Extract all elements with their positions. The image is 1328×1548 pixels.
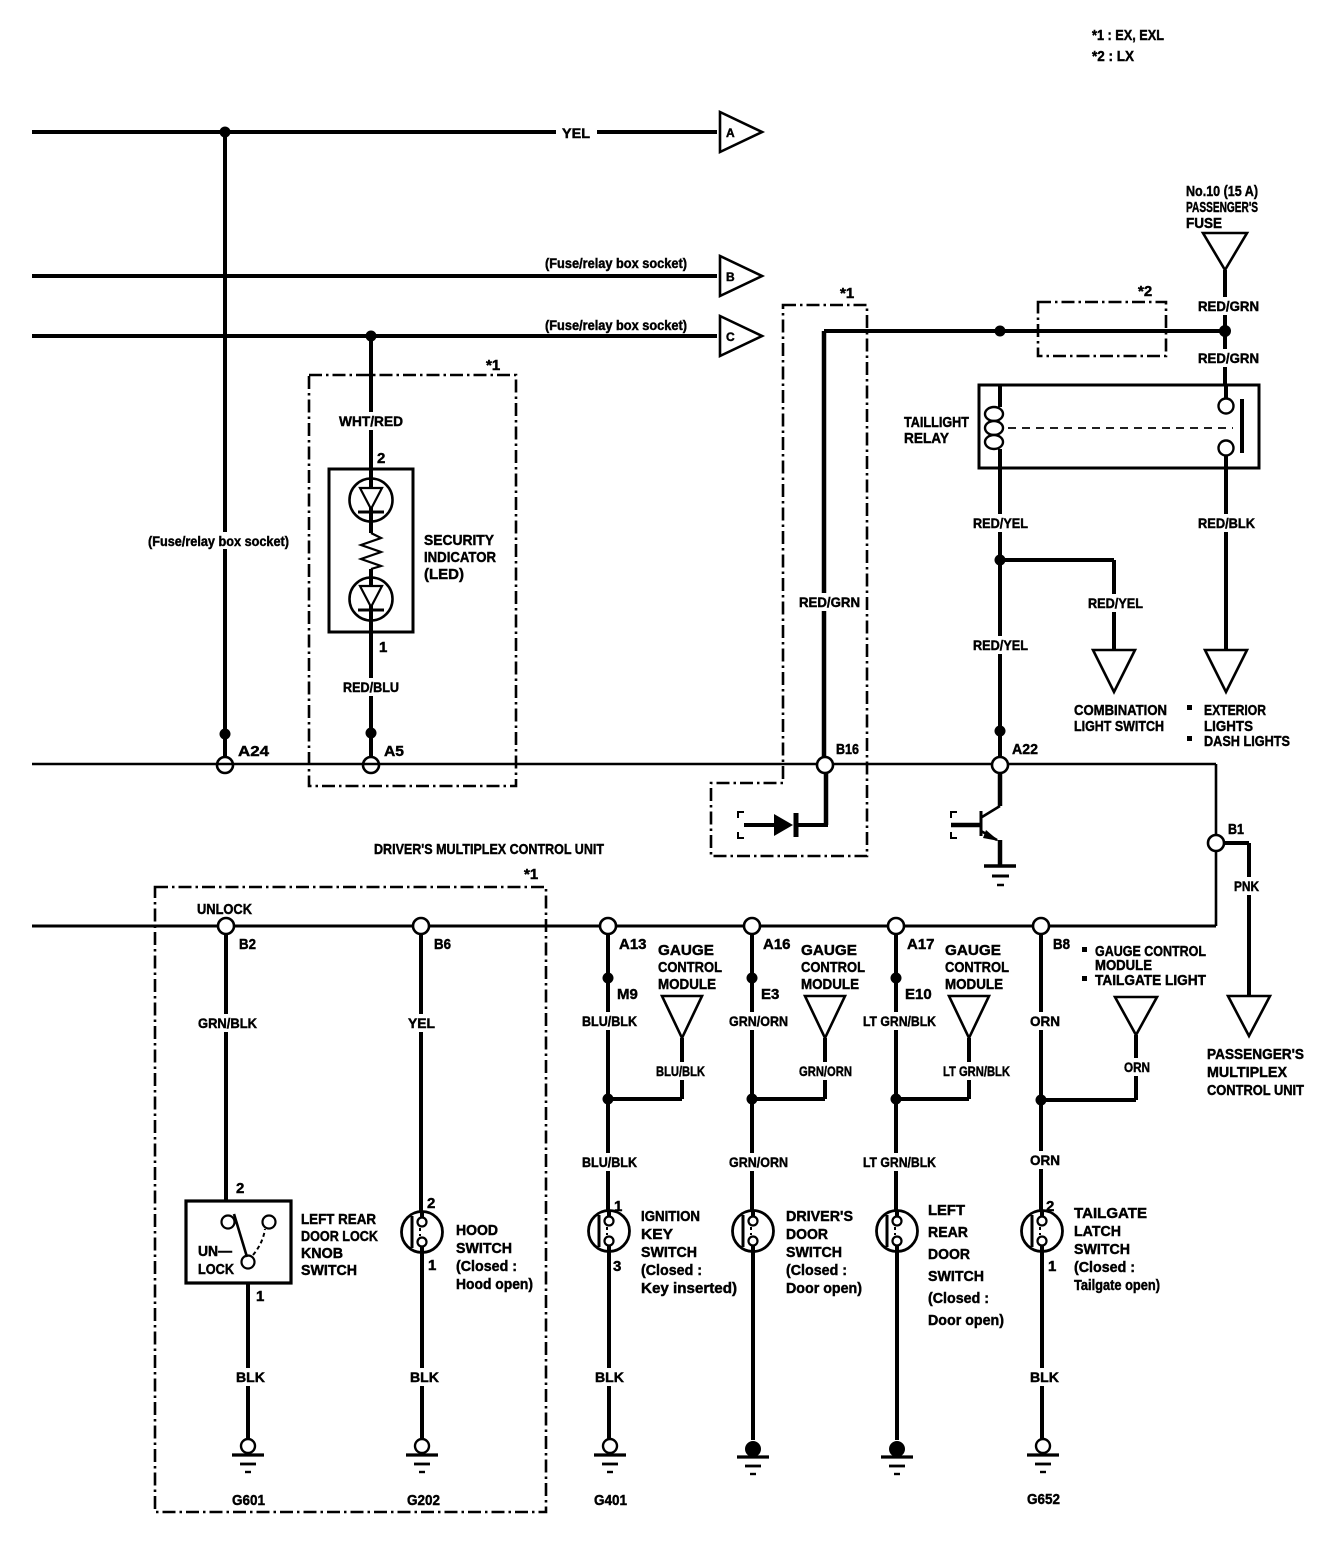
svg-text:(Fuse/relay box socket): (Fuse/relay box socket) <box>545 318 687 333</box>
svg-text:ORN: ORN <box>1030 1152 1060 1168</box>
svg-text:1: 1 <box>379 639 387 656</box>
svg-text:A5: A5 <box>384 743 404 760</box>
connector B1 <box>1208 835 1224 851</box>
switch SW tailgate latch <box>1022 1211 1063 1252</box>
wire WHT/RED <box>369 336 373 470</box>
svg-text:RED/GRN: RED/GRN <box>1198 350 1259 366</box>
svg-text:TAILGATE: TAILGATE <box>1074 1206 1147 1222</box>
svg-text:MODULE: MODULE <box>658 976 716 993</box>
wire YEL feed bus <box>32 130 717 134</box>
label GAUGE CONTROL MODULE A13 <box>658 942 722 993</box>
splice connector E10 <box>891 973 902 984</box>
svg-text:B: B <box>726 270 735 284</box>
svg-text:BLK: BLK <box>595 1369 624 1385</box>
svg-text:DRIVER'S MULTIPLEX CONTROL UNI: DRIVER'S MULTIPLEX CONTROL UNIT <box>374 841 604 858</box>
svg-text:REAR: REAR <box>928 1225 969 1241</box>
label switch text A17 <box>928 1203 1004 1329</box>
label RED/YEL lower <box>970 636 1031 654</box>
label LT GRN/BLK lower A17 <box>860 1153 939 1171</box>
svg-text:G652: G652 <box>1027 1492 1060 1508</box>
terminal bracket diode anode <box>738 812 744 838</box>
label LEFT REAR DOOR LOCK KNOB SWITCH <box>301 1212 378 1279</box>
svg-text:A17: A17 <box>907 936 935 953</box>
label WHT/RED <box>336 412 406 430</box>
connector A22 <box>992 757 1008 773</box>
LED D2 <box>350 578 393 621</box>
svg-text:B6: B6 <box>434 936 451 953</box>
LED D1 <box>350 479 393 522</box>
label RED/GRN vertical <box>796 593 863 611</box>
svg-text:DASH LIGHTS: DASH LIGHTS <box>1204 734 1290 750</box>
wire LT GRN/BLK column A17 <box>894 934 898 1212</box>
label GRN/ORN module drop A16 <box>796 1062 855 1080</box>
transistor Q1 <box>951 773 1000 866</box>
svg-text:1: 1 <box>256 1288 264 1305</box>
svg-text:(Fuse/relay box socket): (Fuse/relay box socket) <box>148 534 289 549</box>
wire PNK to passenger multiplex <box>1224 843 1249 996</box>
svg-text:LIGHTS: LIGHTS <box>1204 719 1253 735</box>
label GAUGE CONTROL MODULE A17 <box>945 942 1009 993</box>
svg-text:LT GRN/BLK: LT GRN/BLK <box>863 1154 936 1170</box>
svg-text:INDICATOR: INDICATOR <box>424 550 496 566</box>
resistor R security indicator <box>361 533 381 569</box>
wire fuse/relay bus B <box>32 274 717 278</box>
label BLK B8 column <box>1027 1368 1062 1386</box>
wire BLK hood switch to ground <box>420 1253 424 1440</box>
wire RED/YEL branch to combination switch <box>1000 560 1114 650</box>
wire B16 to diode <box>798 773 828 825</box>
junction YEL/A24 wire <box>220 127 231 138</box>
wire BLK door lock to ground <box>246 1283 250 1440</box>
svg-text:MODULE: MODULE <box>945 976 1003 993</box>
label TAILLIGHT RELAY <box>904 415 969 447</box>
svg-text:G601: G601 <box>232 1493 265 1509</box>
svg-text:RED/YEL: RED/YEL <box>1088 595 1143 611</box>
svg-text:E3: E3 <box>761 986 779 1003</box>
svg-text:RELAY: RELAY <box>904 431 949 447</box>
svg-text:RED/BLU: RED/BLU <box>343 679 399 695</box>
svg-text:LEFT REAR: LEFT REAR <box>301 1212 376 1228</box>
label BLK B2 column <box>233 1368 268 1386</box>
svg-text:B2: B2 <box>239 936 256 953</box>
label ORN lower <box>1027 1151 1063 1169</box>
junction RED/YEL branch <box>995 555 1006 566</box>
relay K1 taillight relay box <box>979 385 1259 468</box>
svg-text:2: 2 <box>377 450 385 467</box>
svg-text:ORN: ORN <box>1030 1013 1060 1029</box>
svg-text:ORN: ORN <box>1124 1059 1150 1075</box>
label RED/YEL upper <box>970 514 1031 532</box>
svg-text:Tailgate open): Tailgate open) <box>1074 1278 1160 1294</box>
label COMBINATION LIGHT SWITCH <box>1074 703 1167 735</box>
svg-text:UNLOCK: UNLOCK <box>197 902 252 918</box>
junction node security indicator tap <box>366 331 377 342</box>
arrow gauge control module A13 <box>662 996 702 1038</box>
svg-text:RED/GRN: RED/GRN <box>799 594 860 610</box>
svg-text:YEL: YEL <box>408 1015 435 1031</box>
wire to ground A16 <box>751 1252 755 1440</box>
arrow gauge control module A16 <box>805 996 845 1038</box>
label YEL B6 column <box>405 1014 438 1032</box>
splice dot above A22 <box>995 726 1006 737</box>
label RED/YEL branch <box>1085 594 1146 612</box>
label SECURITY INDICATOR (LED) <box>424 533 496 583</box>
wire RED/BLU <box>369 632 373 757</box>
svg-text:No.10 (15 A): No.10 (15 A) <box>1186 184 1258 200</box>
splice dot above A5 <box>366 728 377 739</box>
svg-text:SWITCH: SWITCH <box>301 1263 357 1279</box>
svg-text:LEFT: LEFT <box>928 1203 965 1219</box>
wire to ground A17 <box>895 1252 899 1440</box>
connector A16 <box>744 918 760 934</box>
svg-text:Key inserted): Key inserted) <box>641 1281 737 1297</box>
label BLU/BLK lower A13 <box>579 1153 640 1171</box>
svg-text:TAILLIGHT: TAILLIGHT <box>904 415 969 431</box>
label RED/GRN below junction <box>1195 349 1262 367</box>
svg-text:RED/GRN: RED/GRN <box>1198 298 1259 314</box>
svg-text:BLK: BLK <box>410 1369 439 1385</box>
svg-text:MODULE: MODULE <box>1095 958 1152 974</box>
svg-text:GRN/ORN: GRN/ORN <box>729 1013 788 1029</box>
svg-text:YEL: YEL <box>562 125 590 141</box>
box driver's multiplex control unit dash-dot <box>155 887 546 1512</box>
label No.10 (15 A) PASSENGER'S FUSE <box>1186 184 1258 232</box>
svg-text:PASSENGER'S: PASSENGER'S <box>1207 1047 1304 1063</box>
fuse arrow from passenger fuse <box>1203 233 1247 270</box>
connector B16 <box>817 757 833 773</box>
ground G401 <box>603 1439 617 1453</box>
svg-text:EXTERIOR: EXTERIOR <box>1204 703 1266 719</box>
label TAILGATE LATCH SWITCH (Closed : Tailgate open) <box>1074 1206 1160 1294</box>
label BLK B6 column <box>407 1368 442 1386</box>
label UN-LOCK <box>198 1244 234 1278</box>
svg-text:FUSE: FUSE <box>1186 216 1222 232</box>
svg-text:CONTROL: CONTROL <box>801 959 865 976</box>
connector B8 <box>1033 918 1049 934</box>
label GAUGE CONTROL MODULE A16 <box>801 942 865 993</box>
junction fuse/RED-GRN bus <box>1219 325 1231 337</box>
svg-text:2: 2 <box>427 1195 435 1212</box>
label (Fuse/relay box socket) left <box>145 532 292 549</box>
diode D1 (in *1 box) <box>744 813 796 837</box>
svg-text:(LED): (LED) <box>424 567 464 583</box>
svg-text:SWITCH: SWITCH <box>641 1245 697 1261</box>
label RED/BLK <box>1195 514 1258 532</box>
relay contacts <box>1219 385 1243 468</box>
svg-text:SWITCH: SWITCH <box>456 1241 512 1257</box>
switch left rear door switch symbol A17 <box>877 1211 918 1252</box>
wire BLU/BLK column A13 <box>606 934 610 1212</box>
svg-text:Hood open): Hood open) <box>456 1277 533 1293</box>
svg-text:SECURITY: SECURITY <box>424 533 494 549</box>
svg-text:LOCK: LOCK <box>198 1262 234 1278</box>
wire main bus to multiplex <box>32 764 1216 926</box>
connector arrow A <box>720 112 762 152</box>
svg-text:A13: A13 <box>619 936 647 953</box>
switch ignition key switch symbol A13 <box>589 1211 630 1252</box>
wire gauge module drop B8 <box>1041 1035 1136 1100</box>
splice dot above A24 <box>220 729 231 740</box>
connector B6 <box>413 918 429 934</box>
svg-text:B8: B8 <box>1053 936 1070 953</box>
svg-text:2: 2 <box>236 1180 244 1197</box>
switch door lock knob contacts <box>222 1214 276 1269</box>
wire BLK tailgate to ground <box>1040 1252 1044 1440</box>
svg-text:C: C <box>726 330 735 344</box>
wire RED/GRN vertical to B16 <box>822 331 827 757</box>
label RED/GRN upper <box>1195 297 1262 315</box>
connector A17 <box>888 918 904 934</box>
svg-text:IGNITION: IGNITION <box>641 1209 700 1225</box>
svg-text:*1: *1 <box>524 866 538 883</box>
svg-text:GAUGE: GAUGE <box>801 942 857 959</box>
label switch text A16 <box>786 1209 862 1297</box>
arrow to exterior lights <box>1205 650 1247 692</box>
connector A13 <box>600 918 616 934</box>
wire GRN/ORN column A16 <box>750 934 754 1212</box>
svg-text:B1: B1 <box>1228 821 1244 838</box>
svg-text:1: 1 <box>428 1257 436 1274</box>
svg-text:BLU/BLK: BLU/BLK <box>582 1154 637 1170</box>
svg-text:SWITCH: SWITCH <box>786 1245 842 1261</box>
label PNK <box>1231 877 1262 895</box>
svg-text:GRN/ORN: GRN/ORN <box>729 1154 788 1170</box>
label BLU/BLK module drop A13 <box>653 1062 708 1080</box>
ground transistor emitter <box>984 866 1016 885</box>
svg-text:M9: M9 <box>617 986 638 1003</box>
svg-text:A16: A16 <box>763 936 791 953</box>
svg-text:Door open): Door open) <box>786 1281 862 1297</box>
svg-text:E10: E10 <box>905 986 932 1003</box>
svg-text:(Closed :: (Closed : <box>641 1263 702 1279</box>
wire GRN/BLK <box>224 934 228 1216</box>
label RED/BLU <box>340 678 402 696</box>
wire inside LED box <box>369 469 373 632</box>
svg-text:MODULE: MODULE <box>801 976 859 993</box>
svg-text:WHT/RED: WHT/RED <box>339 413 403 429</box>
svg-text:HOOD: HOOD <box>456 1223 498 1239</box>
label EXTERIOR LIGHTS DASH LIGHTS <box>1187 703 1290 750</box>
svg-text:KEY: KEY <box>641 1227 673 1243</box>
svg-text:LATCH: LATCH <box>1074 1224 1121 1240</box>
arrow gauge control module A17 <box>949 996 989 1038</box>
svg-text:CONTROL: CONTROL <box>945 959 1009 976</box>
ground G652 <box>1036 1439 1050 1453</box>
arrow to combination light switch <box>1093 650 1135 692</box>
svg-text:(Closed :: (Closed : <box>1074 1260 1135 1276</box>
ground G601 <box>241 1439 255 1453</box>
svg-text:B16: B16 <box>836 741 859 758</box>
connector A5 <box>363 757 379 773</box>
wire gauge module drop A13 <box>608 1038 682 1099</box>
wire gauge module drop A17 <box>896 1038 969 1099</box>
svg-text:1: 1 <box>1048 1258 1056 1275</box>
security indicator LED unit box <box>329 469 413 632</box>
wire YEL hood switch <box>419 934 423 1212</box>
svg-text:*2: *2 <box>1138 283 1152 300</box>
svg-text:(Fuse/relay box socket): (Fuse/relay box socket) <box>545 256 687 271</box>
svg-text:BLU/BLK: BLU/BLK <box>656 1063 705 1079</box>
svg-text:LIGHT SWITCH: LIGHT SWITCH <box>1074 719 1164 735</box>
svg-text:(Closed :: (Closed : <box>456 1259 517 1275</box>
svg-text:UN—: UN— <box>198 1244 232 1260</box>
svg-text:RED/YEL: RED/YEL <box>973 637 1028 653</box>
label BLK column A13 <box>592 1368 627 1386</box>
label ORN upper <box>1027 1012 1063 1030</box>
svg-text:GRN/ORN: GRN/ORN <box>799 1063 852 1079</box>
switch SW hood switch <box>402 1212 443 1253</box>
box *1 RED/GRN-diode dash-dot region <box>711 305 867 856</box>
wire gauge module drop A16 <box>752 1038 825 1099</box>
wire RED/YEL relay to A22 <box>998 468 1002 757</box>
junction module/B8 <box>1036 1095 1047 1106</box>
svg-text:BLU/BLK: BLU/BLK <box>582 1013 637 1029</box>
switch SW door lock knob box <box>186 1201 291 1283</box>
svg-text:*2 : LX: *2 : LX <box>1092 48 1134 65</box>
connector arrow B <box>720 256 762 296</box>
label ORN module drop <box>1121 1058 1153 1076</box>
label GRN/ORN upper A16 <box>726 1012 791 1030</box>
label GAUGE CONTROL MODULE / TAILGATE LIGHT <box>1082 944 1206 989</box>
junction module/A16 <box>747 1094 758 1105</box>
svg-text:TAILGATE LIGHT: TAILGATE LIGHT <box>1095 973 1206 989</box>
wire to ground A13 <box>607 1252 611 1440</box>
svg-text:DOOR: DOOR <box>928 1247 971 1263</box>
label switch text A13 <box>641 1209 737 1297</box>
label LT GRN/BLK upper A17 <box>860 1012 939 1030</box>
svg-text:SWITCH: SWITCH <box>928 1269 984 1285</box>
svg-text:GAUGE: GAUGE <box>658 942 714 959</box>
svg-text:COMBINATION: COMBINATION <box>1074 703 1167 719</box>
splice connector M9 <box>603 973 614 984</box>
svg-text:DOOR LOCK: DOOR LOCK <box>301 1229 378 1245</box>
relay coil <box>985 385 1003 468</box>
svg-text:G401: G401 <box>594 1493 627 1509</box>
connector A24 <box>217 757 233 773</box>
label LT GRN/BLK module drop A17 <box>940 1062 1013 1080</box>
label PASSENGER'S MULTIPLEX CONTROL UNIT <box>1207 1047 1304 1099</box>
svg-text:3: 3 <box>613 1258 621 1275</box>
svg-text:A22: A22 <box>1012 741 1038 758</box>
wire RED/GRN fuse drop <box>1223 270 1227 385</box>
svg-text:GAUGE: GAUGE <box>945 942 1001 959</box>
switch driver's door switch symbol A16 <box>733 1211 774 1252</box>
svg-text:PNK: PNK <box>1234 878 1259 894</box>
junction module/A17 <box>891 1094 902 1105</box>
connector B2 <box>218 918 234 934</box>
wire RED/GRN horizontal <box>824 329 1225 333</box>
ground column A17 <box>889 1441 905 1457</box>
label HOOD SWITCH (Closed : Hood open) <box>456 1223 533 1293</box>
svg-text:(Closed :: (Closed : <box>928 1291 989 1307</box>
svg-text:RED/YEL: RED/YEL <box>973 515 1028 531</box>
svg-text:A: A <box>726 126 735 140</box>
junction module/A13 <box>603 1094 614 1105</box>
svg-text:G202: G202 <box>407 1493 440 1509</box>
svg-text:*1: *1 <box>840 285 854 302</box>
svg-text:LT GRN/BLK: LT GRN/BLK <box>863 1013 936 1029</box>
wire driver multiplex bus <box>32 925 1216 928</box>
svg-text:CONTROL: CONTROL <box>658 959 722 976</box>
arrow gauge control module B8 <box>1115 997 1157 1035</box>
wire left drop to A24 <box>223 132 227 757</box>
relay actuation dashed link <box>1008 427 1233 429</box>
svg-text:Door open): Door open) <box>928 1313 1004 1329</box>
junction relay coil tap <box>995 326 1006 337</box>
svg-text:PASSENGER'S: PASSENGER'S <box>1186 200 1258 216</box>
splice connector E3 <box>747 973 758 984</box>
svg-text:(Closed :: (Closed : <box>786 1263 847 1279</box>
svg-text:LT GRN/BLK: LT GRN/BLK <box>943 1063 1010 1079</box>
svg-text:A24: A24 <box>238 743 270 760</box>
svg-text:*1 : EX, EXL: *1 : EX, EXL <box>1092 27 1164 44</box>
svg-text:KNOB: KNOB <box>301 1246 343 1262</box>
wire RED/BLK relay to exterior lights <box>1224 468 1228 650</box>
box *2 LX dash-dot <box>1038 302 1166 356</box>
svg-text:BLK: BLK <box>1030 1369 1059 1385</box>
label BLU/BLK upper A13 <box>579 1012 640 1030</box>
svg-text:SWITCH: SWITCH <box>1074 1242 1130 1258</box>
label GRN/BLK <box>195 1014 260 1032</box>
svg-text:MULTIPLEX: MULTIPLEX <box>1207 1065 1287 1081</box>
label GRN/ORN lower A16 <box>726 1153 791 1171</box>
box *1 security indicator dash-dot <box>309 375 516 786</box>
ground G202 <box>415 1439 429 1453</box>
wire ORN column B8 <box>1039 934 1043 1212</box>
svg-text:*1: *1 <box>486 357 500 374</box>
note legend *1 *2 <box>1092 27 1164 65</box>
connector arrow C <box>720 316 762 356</box>
terminal bracket transistor base <box>951 812 957 838</box>
ground column A16 <box>745 1441 761 1457</box>
arrow to passenger's multiplex control unit <box>1228 996 1270 1036</box>
svg-text:GRN/BLK: GRN/BLK <box>198 1015 257 1031</box>
wire fuse/relay bus C <box>32 334 717 338</box>
svg-text:DOOR: DOOR <box>786 1227 829 1243</box>
svg-text:RED/BLK: RED/BLK <box>1198 515 1255 531</box>
svg-text:DRIVER'S: DRIVER'S <box>786 1209 853 1225</box>
svg-text:BLK: BLK <box>236 1369 265 1385</box>
svg-text:CONTROL UNIT: CONTROL UNIT <box>1207 1083 1304 1099</box>
